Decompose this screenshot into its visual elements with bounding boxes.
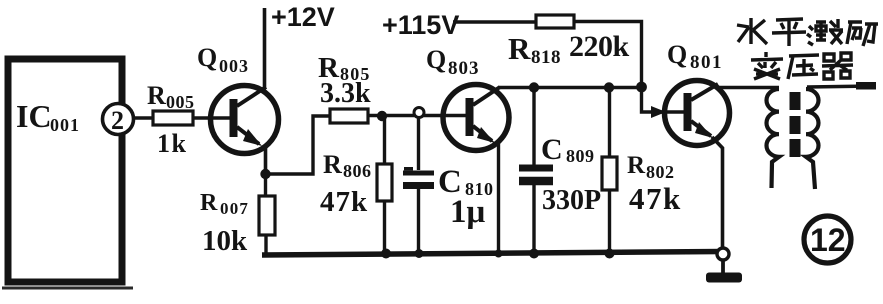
svg-text:R: R — [200, 190, 218, 216]
ground rail wire — [262, 252, 722, 256]
svg-text:Q: Q — [667, 40, 687, 69]
node rail junction C810 — [415, 249, 424, 258]
node junction emitter/R007/R805 — [260, 169, 270, 179]
svg-text:3.3k: 3.3k — [320, 78, 371, 109]
wire junction to R805 — [266, 116, 331, 174]
svg-text:Q: Q — [426, 45, 446, 74]
svg-text:802: 802 — [646, 162, 675, 182]
capacitor C809 330P — [532, 88, 535, 167]
char ji — [807, 19, 843, 45]
node 2 (IC pin 2 terminal) — [103, 104, 134, 135]
wire Q801 emitter down — [712, 137, 723, 249]
ground — [721, 260, 725, 275]
char bian — [751, 52, 783, 79]
wire Q803 collector bus — [499, 86, 642, 89]
resistor R818 220k — [536, 15, 574, 28]
transistor Q003 — [211, 86, 279, 154]
resistor R806 47k — [383, 116, 386, 164]
char qi — [822, 53, 853, 79]
node page marker 12 — [804, 216, 851, 263]
char shui — [737, 18, 767, 44]
wire R005 to Q003 base — [193, 116, 231, 119]
wire Q803 emitter down — [497, 142, 500, 254]
svg-text:+115V: +115V — [382, 10, 459, 40]
IC U: IC001 box — [8, 59, 122, 282]
svg-text:001: 001 — [50, 115, 80, 135]
wire secondary top lead — [807, 86, 874, 87]
svg-text:003: 003 — [219, 56, 249, 76]
chinese label: horizontal drive transformer (line 1) — [737, 18, 878, 46]
capacitor C810 1u — [417, 116, 420, 170]
svg-text:1k: 1k — [157, 129, 187, 158]
node rail junction C809 — [529, 249, 539, 259]
wire to Q801 base with arrow — [642, 88, 685, 112]
chinese label line 2 — [751, 52, 853, 79]
node ring junction C810 tap — [414, 108, 424, 118]
svg-text:005: 005 — [166, 92, 195, 112]
resistor R005 1k — [153, 111, 193, 125]
svg-text:2: 2 — [111, 106, 124, 135]
node rail junction R806 — [381, 249, 391, 259]
char ping — [772, 19, 806, 46]
resistor R007 10k — [264, 174, 267, 196]
svg-text:R: R — [323, 150, 342, 179]
svg-text:220k: 220k — [569, 30, 630, 63]
svg-text:330P: 330P — [542, 185, 601, 216]
svg-text:+12V: +12V — [271, 2, 335, 32]
node ring junction rail end — [717, 248, 729, 260]
svg-text:47k: 47k — [320, 186, 368, 218]
resistor R802 47k — [608, 88, 611, 157]
char ya — [788, 55, 819, 79]
svg-text:809: 809 — [566, 146, 595, 166]
node junction C809 tap — [529, 82, 539, 92]
transformer core — [790, 92, 801, 110]
node junction R805/R806 — [377, 111, 387, 121]
wire node2 to R005 — [134, 116, 153, 119]
svg-text:R: R — [147, 81, 166, 110]
svg-text:1μ: 1μ — [450, 194, 486, 230]
svg-text:R: R — [627, 152, 646, 179]
resistor R805 3.3k — [330, 109, 368, 123]
svg-text:12: 12 — [810, 222, 846, 258]
svg-text:007: 007 — [220, 199, 249, 218]
svg-text:806: 806 — [343, 161, 372, 181]
char li — [847, 22, 878, 46]
transformer T secondary winding — [806, 89, 819, 189]
svg-text:IC: IC — [16, 98, 52, 134]
transformer T primary winding — [767, 89, 780, 188]
svg-text:47k: 47k — [629, 181, 682, 216]
wire R818 to bus — [574, 22, 642, 89]
wire R805 to Q803 base — [368, 114, 466, 117]
wire Q801 collector to transformer — [717, 86, 779, 90]
node rail junction R802 — [605, 249, 615, 259]
svg-text:10k: 10k — [202, 225, 248, 257]
wire Q003 emitter down — [264, 145, 268, 175]
svg-text:Q: Q — [197, 43, 217, 72]
svg-text:C: C — [541, 133, 563, 166]
svg-text:801: 801 — [690, 52, 723, 73]
node junction R802 tap — [604, 82, 614, 92]
node rail junction Q803 emitter — [495, 250, 503, 258]
node junction R818/base — [636, 82, 647, 93]
svg-text:R: R — [508, 31, 531, 66]
transistor Q801 — [665, 81, 730, 146]
svg-text:818: 818 — [531, 47, 561, 68]
transistor Q803 — [443, 85, 509, 151]
svg-text:803: 803 — [448, 58, 480, 79]
